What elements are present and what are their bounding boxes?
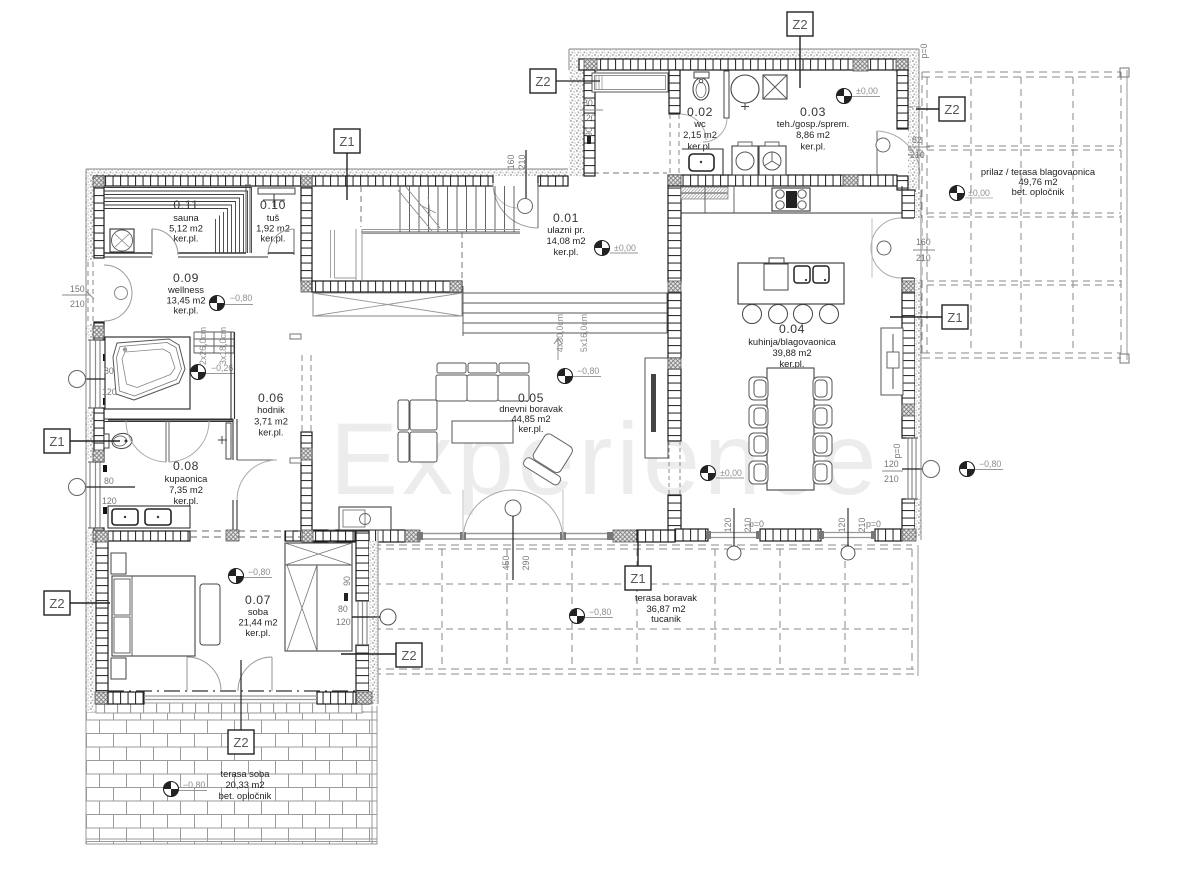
svg-text:20,33 m2: 20,33 m2 xyxy=(225,779,264,790)
svg-text:soba: soba xyxy=(248,606,269,617)
top wall ticks (left wing + central block to entry door) xyxy=(94,176,304,186)
hodnik label 0.06 xyxy=(254,391,288,438)
svg-text:ker.pl.: ker.pl. xyxy=(173,305,198,316)
Z2 right xyxy=(916,108,939,110)
right terrace label xyxy=(981,166,1096,197)
left wall window (kupaonica) xyxy=(90,462,100,528)
dashed link to right terrace xyxy=(908,106,922,108)
svg-text:±0,00: ±0,00 xyxy=(614,243,636,253)
wc door arc xyxy=(680,114,706,140)
island stools xyxy=(743,305,762,324)
bed xyxy=(112,576,195,656)
block left wall xyxy=(584,70,595,176)
entry door leaf + arc xyxy=(493,183,538,228)
terrace double doors xyxy=(463,490,513,540)
svg-text:−0,80: −0,80 xyxy=(230,293,252,303)
svg-text:120: 120 xyxy=(581,113,596,123)
svg-text:hodnik: hodnik xyxy=(257,404,285,415)
hodnik door jambs xyxy=(290,334,301,339)
stove xyxy=(772,188,810,211)
door 150/210 double arcs xyxy=(104,265,132,293)
nightstands xyxy=(111,553,126,574)
svg-text:210: 210 xyxy=(70,299,85,309)
svg-text:Z2: Z2 xyxy=(792,17,807,32)
svg-text:450: 450 xyxy=(501,556,511,571)
kupaonica swing door xyxy=(166,421,169,462)
svg-text:0.03: 0.03 xyxy=(800,105,826,119)
hot tub frame xyxy=(105,337,190,409)
Z1 right xyxy=(890,316,942,318)
svg-text:120: 120 xyxy=(884,459,899,469)
svg-text:120: 120 xyxy=(837,518,847,533)
svg-text:0.01: 0.01 xyxy=(553,211,579,225)
kupaonica vanity counter xyxy=(108,506,190,528)
svg-text:120: 120 xyxy=(723,518,733,533)
teh boiler xyxy=(731,75,759,103)
svg-text:160: 160 xyxy=(506,155,516,170)
top wall corner hatches xyxy=(301,176,312,186)
svg-text:wc: wc xyxy=(693,118,706,129)
terrace drain circles xyxy=(727,546,741,560)
svg-text:p=0: p=0 xyxy=(866,519,881,529)
coffee table xyxy=(452,421,513,443)
kupaonica radiator xyxy=(226,423,231,459)
sauna bottom wall xyxy=(104,252,246,254)
svg-text:−0,80: −0,80 xyxy=(979,459,1001,469)
dining table xyxy=(767,368,814,490)
wardrobe xyxy=(285,543,352,651)
stair hall dashed line xyxy=(360,186,362,227)
tus door arc xyxy=(293,229,295,255)
top wall ticks xyxy=(579,59,908,70)
Z1 bottom terrace xyxy=(637,542,639,566)
living room label 0.05 xyxy=(499,391,563,434)
kitchen right wall xyxy=(902,190,915,218)
svg-text:80: 80 xyxy=(104,476,114,486)
svg-text:wellness: wellness xyxy=(167,284,204,295)
Z1 left xyxy=(66,440,120,442)
brick terrace elevation -0,80 xyxy=(164,782,179,797)
wellness room 0.09 label xyxy=(166,271,205,316)
left wall window (hot tub room) xyxy=(90,340,100,408)
dining elevation ±0,00 xyxy=(701,466,716,481)
stair handrail xyxy=(356,229,362,280)
sliding glass door 450/290 xyxy=(417,534,612,540)
living sideboard bottom left xyxy=(339,507,391,530)
L-sofa back cushions xyxy=(398,363,529,462)
top wall insulation band left wing + central xyxy=(86,169,568,176)
left wall door opening 150/210 (dashes) xyxy=(88,262,93,324)
svg-text:ulazni pr.: ulazni pr. xyxy=(547,224,585,235)
teh right door 82/210 xyxy=(876,131,878,176)
svg-text:120: 120 xyxy=(102,496,117,506)
right terrace elevation marker ±0,00 xyxy=(950,186,965,201)
svg-text:0.04: 0.04 xyxy=(779,322,805,336)
living elevation -0,80 xyxy=(558,369,573,384)
bedroom label 0.07 xyxy=(238,593,277,638)
bedroom right wall xyxy=(356,531,369,601)
kitchen island xyxy=(738,263,844,304)
wellness elevation -0,80 xyxy=(210,296,225,311)
svg-text:21,44 m2: 21,44 m2 xyxy=(238,617,277,628)
teh elevation ±0,00 xyxy=(837,89,852,104)
svg-text:210: 210 xyxy=(916,253,931,263)
kupaonica inner partition xyxy=(108,419,233,421)
sauna label xyxy=(169,198,203,244)
svg-text:−0,80: −0,80 xyxy=(183,780,205,790)
void window shelf xyxy=(592,73,668,92)
bottom terrace elevation -0,80 xyxy=(570,609,585,624)
right side elevation -0,80 xyxy=(960,462,975,477)
sauna stove xyxy=(110,229,134,252)
bedroom elevation -0,80 xyxy=(229,569,244,584)
bedroom bottom wall xyxy=(108,692,144,704)
svg-text:−0,80: −0,80 xyxy=(589,607,611,617)
svg-text:ker.pl.: ker.pl. xyxy=(258,427,283,438)
block bottom wall xyxy=(668,175,897,186)
bedroom right wall window 80/120 xyxy=(358,601,367,645)
bedroom top wall xyxy=(108,531,190,541)
sauna door arc xyxy=(151,229,153,255)
left wall ticks segments xyxy=(94,176,104,258)
svg-text:p=0: p=0 xyxy=(749,519,764,529)
svg-text:bet. opločnik: bet. opločnik xyxy=(219,790,272,801)
svg-text:ker.pl.: ker.pl. xyxy=(779,358,804,369)
svg-text:0.11: 0.11 xyxy=(173,198,198,212)
svg-text:80: 80 xyxy=(583,98,593,108)
svg-text:0.10: 0.10 xyxy=(260,198,286,212)
svg-text:Z2: Z2 xyxy=(535,74,550,89)
svg-text:120: 120 xyxy=(102,387,117,397)
right terrace: prilaz / terasa blagovaonica xyxy=(922,68,1129,363)
svg-text:Z1: Z1 xyxy=(630,571,645,586)
svg-text:ker.pl.: ker.pl. xyxy=(245,627,270,638)
svg-text:Z2: Z2 xyxy=(233,735,248,750)
Z2 left leader xyxy=(556,80,600,82)
kitchen left wall xyxy=(668,186,681,282)
svg-text:14,08 m2: 14,08 m2 xyxy=(546,235,585,246)
kupaonica door to hodnik xyxy=(237,459,277,461)
interior dash-dot line xyxy=(108,690,356,692)
stairs xyxy=(361,186,520,232)
svg-text:−0,26: −0,26 xyxy=(211,363,233,373)
svg-text:p=0: p=0 xyxy=(919,43,929,58)
hot tub xyxy=(113,339,185,400)
top wall insulation xyxy=(569,49,919,59)
svg-text:ker.pl.: ker.pl. xyxy=(518,423,543,434)
svg-text:80: 80 xyxy=(104,366,114,376)
left exterior wall insulation band xyxy=(86,169,94,712)
exterior outline edges xyxy=(86,49,921,712)
svg-text:82: 82 xyxy=(912,135,922,145)
kupaonica label xyxy=(165,459,209,506)
svg-text:150: 150 xyxy=(70,284,85,294)
wall kupaonica/hodnik xyxy=(233,419,237,531)
svg-text:0.09: 0.09 xyxy=(173,271,199,285)
block right wall xyxy=(897,70,908,129)
svg-text:Z2: Z2 xyxy=(944,102,959,117)
tub corner steps xyxy=(194,332,234,353)
svg-text:39,88 m2: 39,88 m2 xyxy=(772,347,811,358)
svg-text:±0,00: ±0,00 xyxy=(720,468,742,478)
svg-text:160: 160 xyxy=(916,237,931,247)
svg-text:tucanik: tucanik xyxy=(651,613,681,624)
wc label 0.02 xyxy=(683,105,717,152)
wc left wall xyxy=(669,70,680,114)
svg-text:−0,80: −0,80 xyxy=(577,366,599,376)
Z2 bedroom right xyxy=(341,653,396,655)
svg-text:80: 80 xyxy=(338,604,348,614)
Z2 below bedroom xyxy=(228,730,254,754)
tus room 0.10 divider xyxy=(246,184,250,253)
dryer xyxy=(759,146,786,175)
svg-text:0.07: 0.07 xyxy=(245,593,271,607)
tus label xyxy=(256,198,290,244)
svg-text:Z2: Z2 xyxy=(49,596,64,611)
Z2 leader below xyxy=(240,660,242,730)
right wall french doors 160/210 xyxy=(871,218,901,248)
bottom terrace: terasa boravak xyxy=(370,545,918,676)
svg-text:0.06: 0.06 xyxy=(258,391,284,405)
kitchen label 0.04 xyxy=(748,322,836,369)
entry label 0.01 xyxy=(546,211,585,257)
kitchen counter top xyxy=(681,186,902,213)
svg-text:−0,80: −0,80 xyxy=(248,567,270,577)
french doors to terrace xyxy=(187,657,272,691)
svg-text:teh./gosp./sprem.: teh./gosp./sprem. xyxy=(777,118,849,129)
dining radiator right xyxy=(881,328,903,395)
interior steps 4x30 xyxy=(463,286,667,336)
bedroom left wall xyxy=(96,541,108,704)
svg-text:terasa soba: terasa soba xyxy=(221,768,271,779)
wc toilet xyxy=(694,72,709,78)
Z2 left lower xyxy=(68,602,110,604)
bottom glass wall xyxy=(144,696,317,700)
kitchen bottom wall xyxy=(675,529,708,541)
svg-text:tuš: tuš xyxy=(267,212,280,223)
bottom windows 120/210 xyxy=(708,533,760,538)
lounge chair xyxy=(522,430,578,486)
teh label 0.03 xyxy=(777,105,849,152)
wc washbasin counter xyxy=(682,149,723,176)
svg-text:90: 90 xyxy=(342,576,352,586)
svg-text:290: 290 xyxy=(521,556,531,571)
dining chairs left xyxy=(749,377,768,484)
wall between left wing and central block xyxy=(301,176,312,282)
svg-text:ker.pl.: ker.pl. xyxy=(800,141,825,152)
svg-text:4x30,0cm: 4x30,0cm xyxy=(555,314,565,352)
entry dashed ceiling line xyxy=(583,172,667,174)
dining chairs right xyxy=(813,377,832,484)
svg-text:120: 120 xyxy=(336,617,351,627)
crossed box below stair wall xyxy=(313,293,462,316)
tus shelf xyxy=(258,188,295,194)
stair hall bottom wall xyxy=(312,281,462,292)
svg-text:0.02: 0.02 xyxy=(687,105,713,119)
entry elevation ±0,00 xyxy=(595,241,610,256)
svg-text:Z1: Z1 xyxy=(49,434,64,449)
svg-text:7,35 m2: 7,35 m2 xyxy=(169,484,203,495)
svg-text:90: 90 xyxy=(584,127,594,137)
svg-text:210: 210 xyxy=(884,474,899,484)
living room bottom wall xyxy=(312,530,328,542)
window circle marker xyxy=(69,371,86,388)
svg-text:ker.pl.: ker.pl. xyxy=(260,233,285,244)
svg-text:±0,00: ±0,00 xyxy=(968,188,990,198)
svg-text:sauna: sauna xyxy=(173,212,199,223)
bench at bed foot xyxy=(200,584,220,645)
svg-text:Z2: Z2 xyxy=(401,648,416,663)
brick terrace label xyxy=(219,768,272,801)
svg-text:0.08: 0.08 xyxy=(173,459,199,473)
svg-text:8,86 m2: 8,86 m2 xyxy=(796,129,830,140)
Z1 top xyxy=(346,153,348,200)
svg-text:2x26,0cm: 2x26,0cm xyxy=(198,327,208,365)
Z2 top xyxy=(799,36,801,88)
svg-text:5x16,0cm: 5x16,0cm xyxy=(579,314,589,352)
svg-text:bet. opločnik: bet. opločnik xyxy=(1012,186,1065,197)
brick terrace top tick row xyxy=(96,703,362,713)
kupaonica toilet xyxy=(111,432,133,450)
brick terrace: terasa soba xyxy=(86,712,377,844)
svg-text:±0,00: ±0,00 xyxy=(856,86,878,96)
right wall window 120/210 xyxy=(908,438,916,499)
svg-text:2,15 m2: 2,15 m2 xyxy=(683,129,717,140)
wc/teh partition + door leaf xyxy=(724,71,729,118)
svg-text:3,71 m2: 3,71 m2 xyxy=(254,416,288,427)
svg-text:ker.pl.: ker.pl. xyxy=(173,233,198,244)
svg-text:Z1: Z1 xyxy=(947,310,962,325)
svg-text:ker.pl.: ker.pl. xyxy=(553,246,578,257)
washer xyxy=(732,146,758,175)
stair break line xyxy=(398,187,440,231)
svg-text:Z1: Z1 xyxy=(339,134,354,149)
wall tub-room / kupaonica xyxy=(104,419,233,422)
svg-text:kupaonica: kupaonica xyxy=(165,473,209,484)
svg-text:kuhinja/blagovaonica: kuhinja/blagovaonica xyxy=(748,336,836,347)
wall tub-room right xyxy=(231,332,235,419)
svg-text:3x18,0cm: 3x18,0cm xyxy=(218,327,228,365)
svg-text:ker.pl.: ker.pl. xyxy=(687,141,712,152)
corner hatch blocks left wall xyxy=(93,176,104,187)
shower symbol xyxy=(263,194,285,207)
svg-text:ker.pl.: ker.pl. xyxy=(173,495,198,506)
TV unit on dining wall xyxy=(645,358,668,458)
elevation -0,26 xyxy=(191,365,206,380)
bottom terrace label xyxy=(635,592,697,624)
svg-text:p=0: p=0 xyxy=(892,443,902,458)
Z2 left of wc xyxy=(530,69,556,93)
sauna bench lines xyxy=(104,188,252,254)
svg-text:terasa boravak: terasa boravak xyxy=(635,592,697,603)
teh shaft x-box xyxy=(763,75,787,99)
